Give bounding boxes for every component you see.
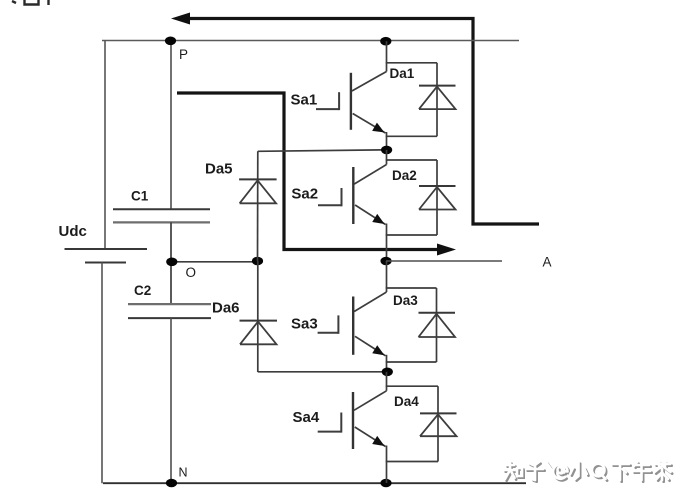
node: clamp junction dot on O wire: [252, 257, 263, 266]
svg-text:A: A: [543, 255, 552, 270]
wire: clamp column through Da6: [257, 261, 259, 372]
wire: tap from Sa3 collector to diode Da3 cathode: [386, 287, 437, 289]
wire: negative rail N (bottom): [103, 482, 526, 484]
node P (junction dot): [165, 37, 176, 46]
node: Sa1/Sa2 junction: [381, 146, 392, 155]
svg-text:O: O: [186, 265, 197, 280]
wire: capacitor column from P to C1: [170, 41, 172, 210]
wire: collector lead of Sa3 from node down: [386, 261, 388, 292]
transistor Sa3 (IGBT): [291, 292, 387, 356]
svg-text:C1: C1: [131, 189, 149, 204]
wire: jog from Sa3 emitter to diode Da3 anode: [386, 361, 437, 363]
clamp diode Da5: [205, 161, 277, 204]
transistor Sa1 (IGBT): [291, 72, 387, 134]
transistor Sa2 (IGBT): [291, 165, 386, 225]
watermark (bottom right): [504, 462, 672, 482]
wire: left source column upper: [104, 41, 106, 250]
wire: phase output line to A: [386, 260, 502, 262]
wire: tap from Sa2 collector to diode Da2 cathode: [386, 159, 437, 161]
svg-text:Sa4: Sa4: [293, 409, 320, 426]
svg-text:Da4: Da4: [394, 394, 419, 409]
wire: thick current-path with left arrow (top loop): [188, 19, 539, 225]
svg-text:Da5: Da5: [205, 161, 233, 178]
wire: positive rail P (top): [102, 40, 519, 42]
wire: collector lead of Sa4 from node down: [386, 372, 388, 391]
svg-text:N: N: [179, 466, 188, 480]
transistor Sa4 (IGBT): [293, 391, 387, 449]
wire: emitter lead of Sa4 down to node: [386, 446, 388, 484]
wire: thick current-path through Sa1/Sa2 out to A (right arrow): [177, 93, 437, 250]
svg-text:Sa3: Sa3: [291, 315, 318, 332]
diode Da1 (antiparallel): [390, 63, 456, 137]
wire: left source column lower: [101, 263, 103, 484]
svg-text:C2: C2: [134, 283, 151, 298]
node O (junction dot): [166, 258, 177, 267]
wire: clamp bottom from Da6 to Sa3/Sa4 junction: [258, 371, 387, 373]
wire: capacitor column node O to C2: [170, 262, 172, 304]
wire: tap from Sa4 collector to diode Da4 cathode: [386, 385, 438, 387]
svg-text:Sa1: Sa1: [291, 92, 318, 109]
clamp diode Da6: [212, 300, 277, 345]
wire: capacitor column C1 to node O: [170, 222, 172, 262]
wire: collector lead of Sa1 from node down: [386, 41, 388, 71]
node N (junction dot): [166, 479, 177, 488]
diode Da2 (antiparallel): [392, 160, 456, 235]
wire: from node O to clamp column: [171, 261, 258, 263]
svg-text:Da6: Da6: [212, 300, 240, 317]
svg-text:P: P: [179, 47, 188, 62]
svg-text:Sa2: Sa2: [291, 186, 318, 203]
wire: jog from Sa4 emitter to diode Da4 anode: [386, 461, 438, 463]
node A junction (phase output): [380, 257, 391, 266]
wire: clamp column through Da5: [257, 151, 259, 261]
wire: jog from Sa2 emitter to diode Da2 anode: [386, 234, 437, 236]
svg-text:Da1: Da1: [390, 66, 415, 81]
svg-text:Da2: Da2: [392, 168, 417, 183]
wire: capacitor column C2 to N: [170, 318, 172, 483]
cropped text fragment (top-left corner): [12, 0, 49, 5]
node: Sa3/Sa4 junction: [382, 368, 393, 377]
svg-text:Udc: Udc: [59, 223, 87, 240]
node: chain bottom junction on N rail: [380, 479, 391, 488]
wire: tap from Sa1 collector to diode Da1 cathode: [386, 62, 437, 64]
node: chain top junction on P rail: [380, 37, 391, 46]
wire: collector lead of Sa2 from node down: [386, 150, 388, 165]
wire: emitter lead of Sa3 down to node: [386, 355, 388, 372]
diode Da4 (antiparallel): [394, 386, 457, 461]
diode Da3 (antiparallel): [393, 288, 455, 362]
wire: clamp top from Da5 to Sa1/Sa2 junction: [258, 150, 387, 152]
wire: emitter lead of Sa2 down to node: [386, 224, 388, 262]
capacitor C1: [113, 189, 210, 223]
DC source Udc (battery): [59, 223, 148, 263]
wire: emitter lead of Sa1 down to node: [386, 132, 388, 151]
capacitor C2: [128, 283, 211, 318]
wire: jog from Sa1 emitter to diode Da1 anode: [386, 135, 437, 137]
svg-text:Da3: Da3: [393, 293, 418, 308]
